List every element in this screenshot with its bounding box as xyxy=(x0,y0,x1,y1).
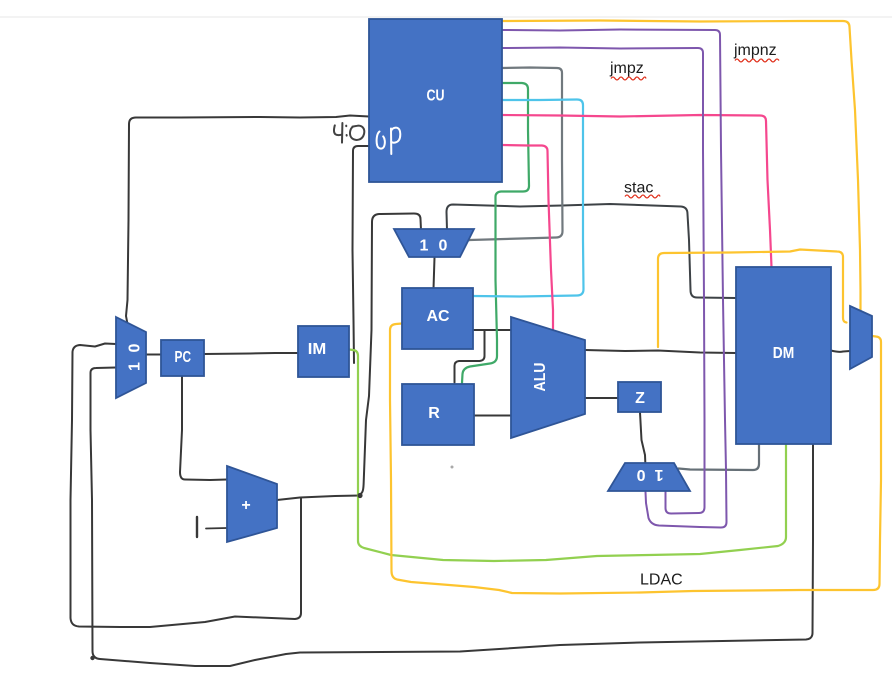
svg-text:ALU: ALU xyxy=(532,363,549,392)
svg-text:jmpnz: jmpnz xyxy=(733,42,777,59)
svg-text:PC: PC xyxy=(175,349,192,366)
svg-text:stac: stac xyxy=(624,180,653,197)
svg-text:1: 1 xyxy=(127,362,144,371)
svg-text:AC: AC xyxy=(427,308,450,325)
svg-text:jmpz: jmpz xyxy=(609,60,644,77)
svg-text:0: 0 xyxy=(636,466,645,483)
svg-text:LDAC: LDAC xyxy=(640,572,683,589)
svg-text:Z: Z xyxy=(635,390,645,407)
svg-text:CU: CU xyxy=(427,88,445,105)
svg-text:1: 1 xyxy=(654,466,663,483)
svg-text:0: 0 xyxy=(127,343,144,352)
svg-text:0: 0 xyxy=(439,238,448,255)
svg-text:R: R xyxy=(428,405,440,422)
svg-text:1: 1 xyxy=(420,238,429,255)
svg-text:DM: DM xyxy=(773,345,795,362)
svg-text:+: + xyxy=(241,497,250,514)
svg-text:IM: IM xyxy=(308,341,327,358)
